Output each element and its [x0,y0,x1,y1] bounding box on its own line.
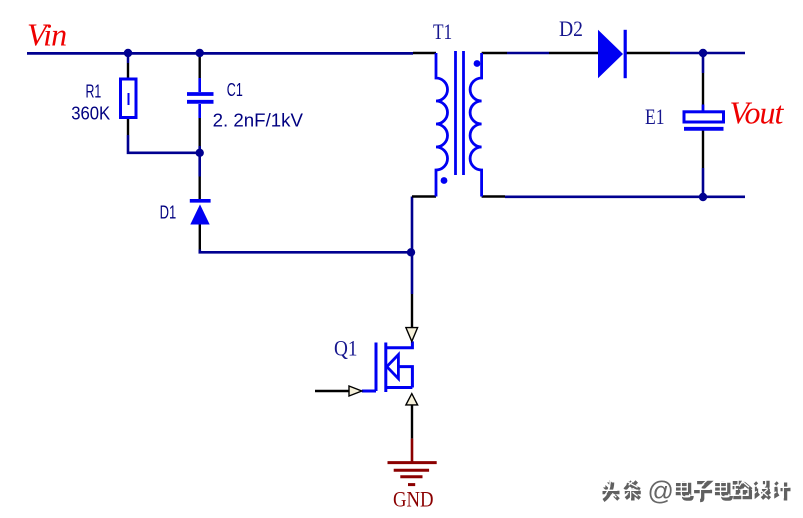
pin D1 cathode [198,177,200,200]
wire to ground dark red [411,439,414,462]
transformer T1 primary winding [436,53,448,197]
phase dot secondary [474,60,481,67]
ground [388,463,437,485]
pin arrow Q1 gate [349,386,362,396]
wire gate drive [315,390,349,393]
junction node output bottom [699,193,707,201]
wire output node to E1 [702,53,705,73]
wire R1 to C1 bottom link [128,135,200,153]
wire E1 to bottom rail [702,168,705,197]
wire Q1 source black [411,405,413,439]
pin arrow Q1 source [406,394,418,405]
svg-text:Vout: Vout [730,95,785,131]
svg-text:D2: D2 [559,16,583,41]
pin arrow Q1 drain [406,328,418,342]
svg-text:360K: 360K [71,103,110,123]
transformer T1 core [456,51,464,175]
svg-text:GND: GND [393,487,434,512]
svg-text:Q1: Q1 [334,336,358,361]
pin D2 anode [549,52,598,54]
junction node snubber bottom [196,149,204,157]
pin C1 bottom [198,117,200,146]
capacitor C1 [187,78,214,118]
svg-text:T1: T1 [433,19,452,44]
pin R1 top [127,53,130,63]
wire top rail Vin [27,52,413,55]
wire C1 bottom to node [198,146,201,177]
transformer T1 secondary winding [470,53,482,197]
wire switch node vertical [411,197,414,295]
junction node output top [699,49,707,57]
junction node Vin-C1 [196,49,204,57]
pin E1 bottom [702,131,704,169]
pin D1 anode [199,225,201,250]
wire bottom rail secondary [505,195,745,198]
diode D1 [190,201,211,225]
wire D1 anode to switch node [200,250,411,253]
pin T1 primary top [413,52,436,54]
svg-text:Vin: Vin [27,16,66,52]
wire Q1 drain black [411,294,413,328]
pin T1 primary bottom [412,195,436,197]
pin E1 top [702,73,704,112]
junction node Vin-R1 [124,49,132,57]
svg-text:2. 2nF/1kV: 2. 2nF/1kV [213,110,303,130]
capacitor E1 polarized [684,105,724,129]
pin R1 bottom [127,118,129,136]
svg-text:E1: E1 [645,104,665,129]
svg-text:R1: R1 [86,81,102,101]
junction node switch [407,248,415,256]
svg-text:D1: D1 [160,202,177,222]
wire D2 to output [670,52,745,55]
diode D2 [598,30,625,78]
pin T1 secondary bottom [482,195,505,197]
pin D2 cathode [627,52,671,54]
wire T1 to D2 [507,52,549,55]
mosfet Q1 [362,341,413,392]
svg-text:C1: C1 [227,80,243,100]
pin C1 top [198,53,200,79]
resistor R1 [121,79,137,118]
phase dot primary [441,177,448,184]
pin T1 secondary top [482,52,507,54]
